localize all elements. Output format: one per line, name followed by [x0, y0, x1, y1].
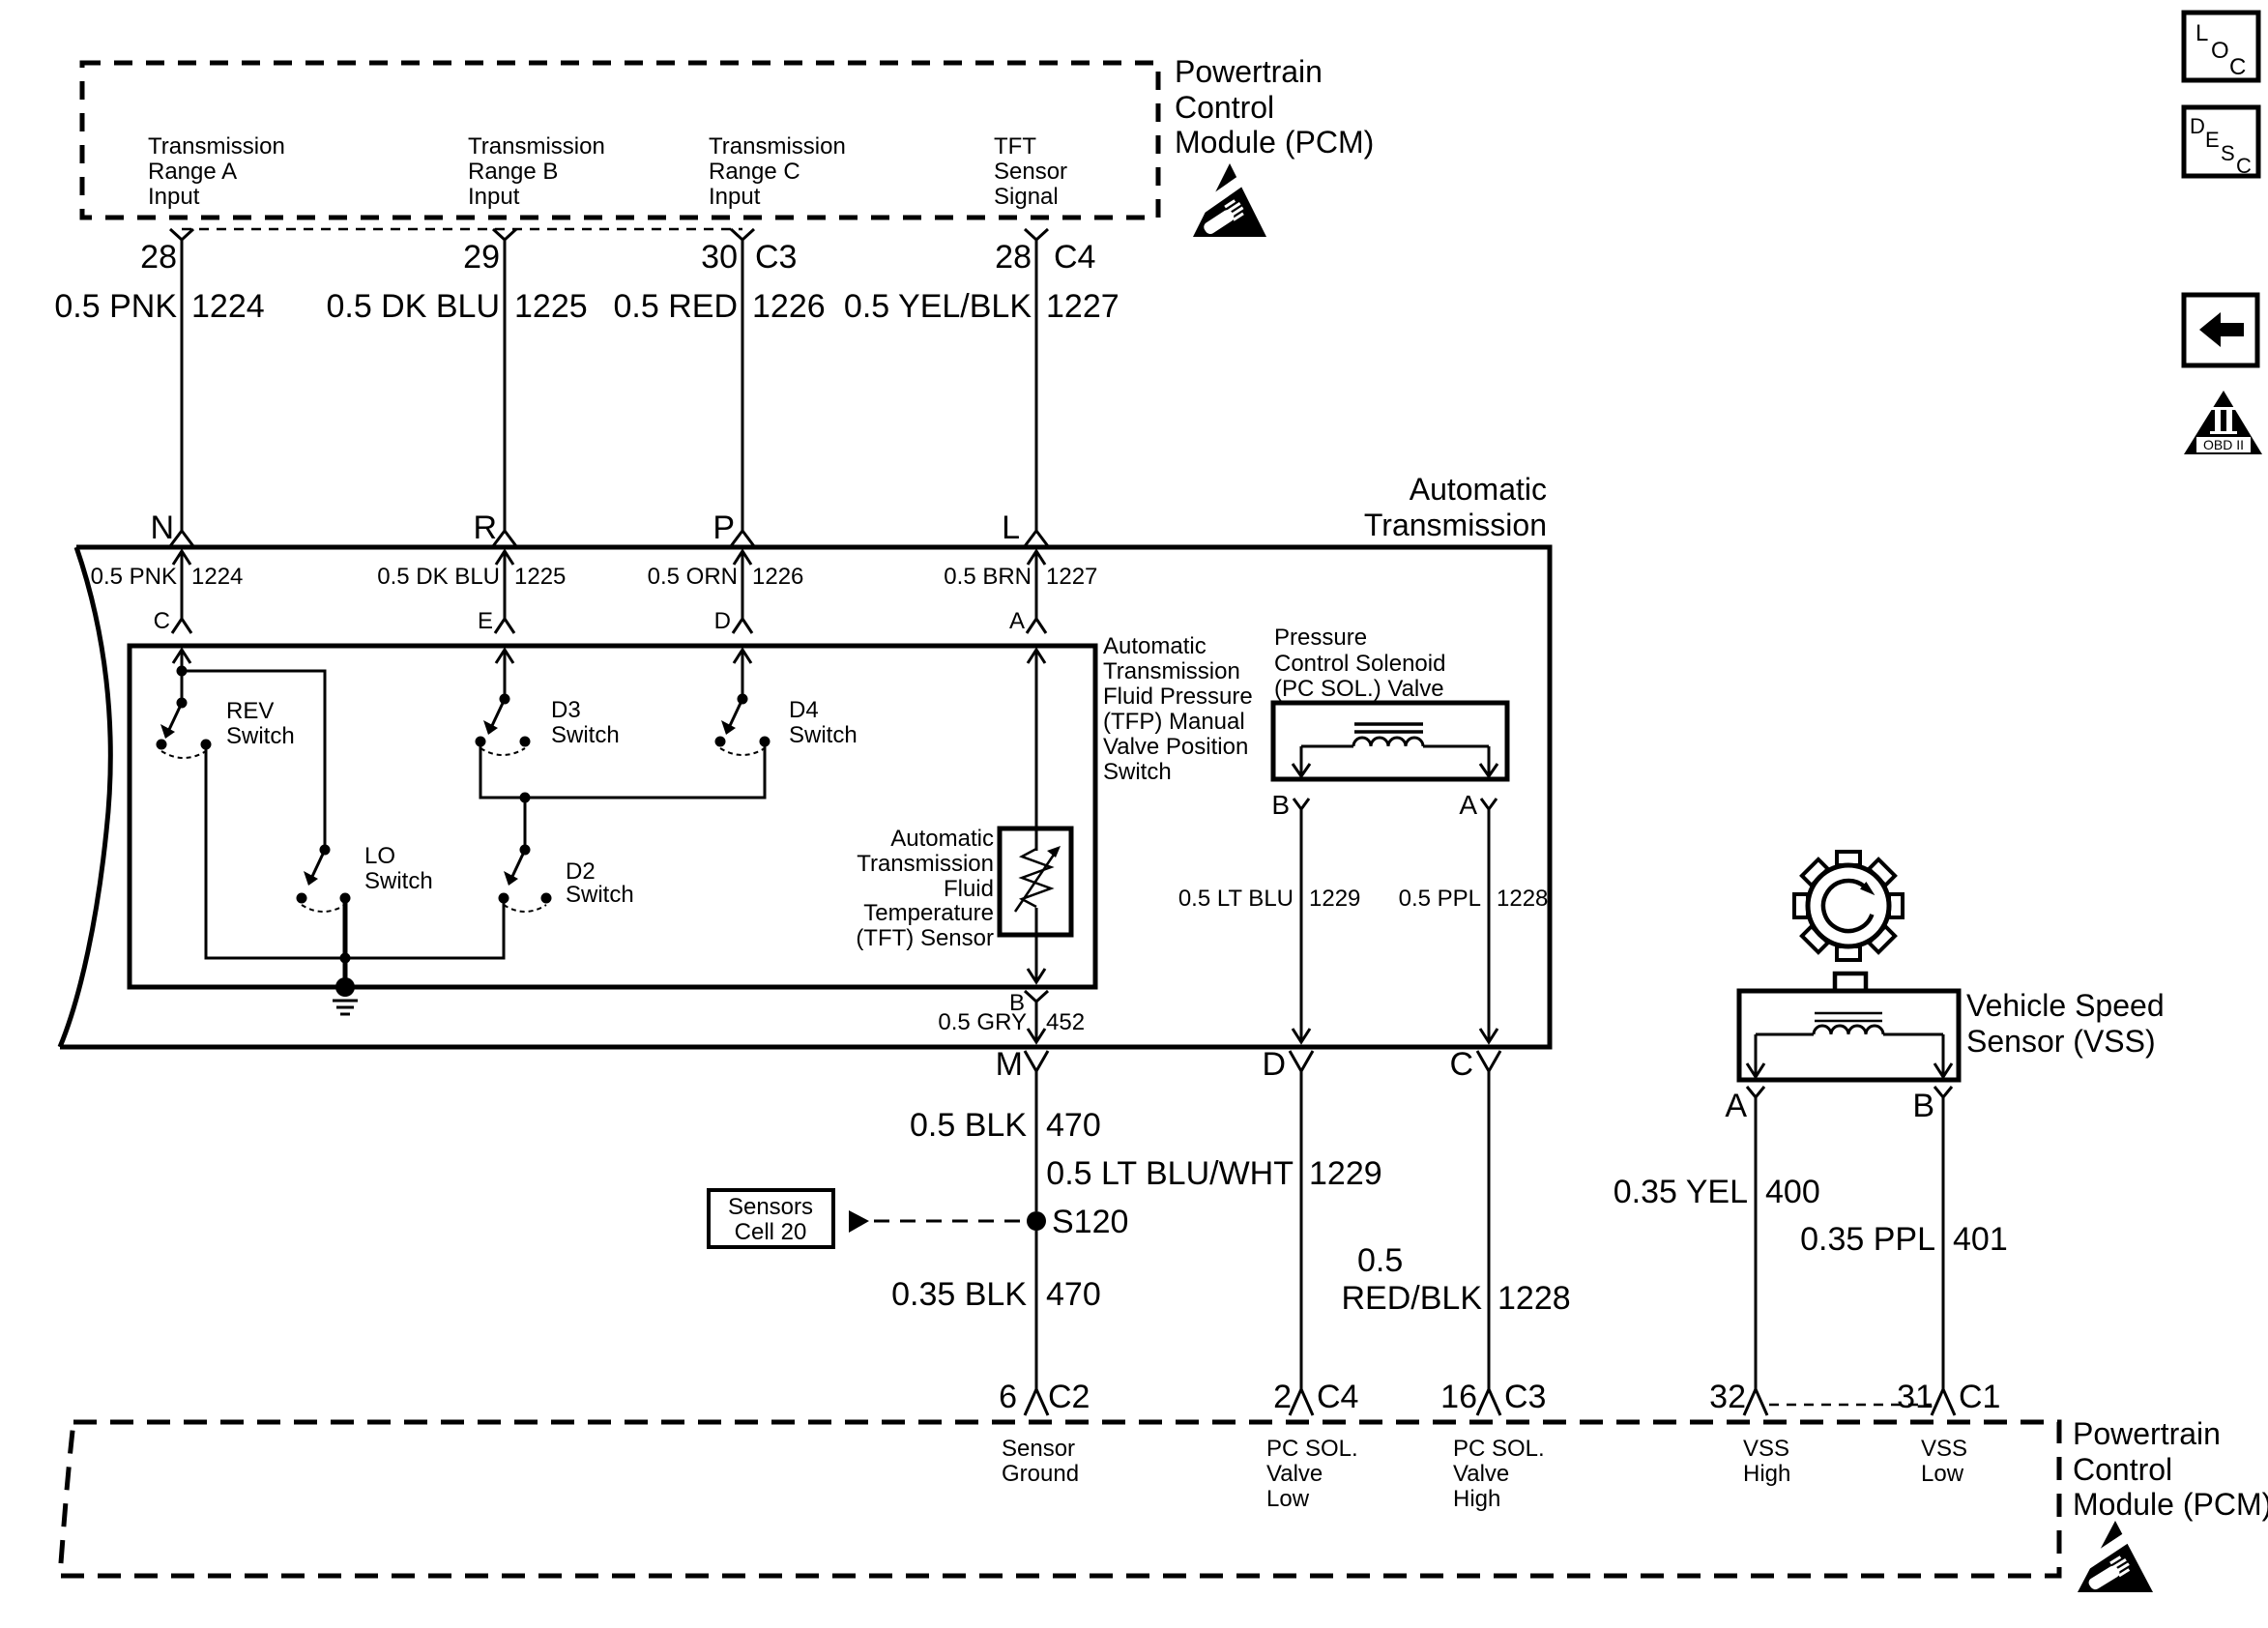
pin C transmission case: [1449, 1046, 1500, 1083]
svg-text:C3: C3: [755, 239, 797, 276]
wire A to TFT sensor: [1035, 650, 1038, 851]
PC SOL valve box: [1273, 703, 1507, 779]
label PC SOL Valve Low: [1266, 1436, 1358, 1512]
wire TFT to pin B: [1028, 908, 1045, 982]
pin 29 connector fork (PCM C3): [463, 229, 516, 276]
wire 1227 0.5 BRN inside transmission: [944, 551, 1097, 619]
label Transmission Range B Input: [468, 133, 605, 210]
svg-text:Input: Input: [468, 184, 520, 210]
svg-text:28: 28: [140, 239, 177, 276]
pin 6 C2 PCM: [999, 1379, 1090, 1415]
svg-text:R: R: [473, 509, 497, 546]
svg-text:1228: 1228: [1497, 1280, 1571, 1317]
svg-text:32: 32: [1709, 1379, 1746, 1415]
svg-text:0.5 PNK: 0.5 PNK: [91, 564, 177, 590]
svg-text:Sensor (VSS): Sensor (VSS): [1966, 1024, 2156, 1059]
switch D4: [715, 694, 858, 756]
svg-text:REV: REV: [226, 698, 274, 724]
wire E to D3: [504, 650, 507, 699]
svg-text:0.35 BLK: 0.35 BLK: [891, 1276, 1027, 1313]
splice S120: [1027, 1204, 1128, 1240]
svg-text:Automatic: Automatic: [1410, 472, 1547, 507]
svg-text:0.5: 0.5: [1357, 1242, 1403, 1279]
pin 31 PCM C1: [1897, 1379, 2000, 1415]
svg-text:C4: C4: [1317, 1379, 1358, 1415]
wire 1229 0.5 LT BLU/WHT: [1046, 1071, 1381, 1389]
pin C TFP switch: [154, 608, 191, 663]
switch D3: [476, 694, 620, 756]
label Sensor Ground: [1002, 1436, 1079, 1487]
svg-text:Input: Input: [709, 184, 761, 210]
svg-text:Low: Low: [1921, 1461, 1964, 1487]
PC SOL solenoid core bars: [1354, 724, 1423, 732]
wire 1228 0.5 RED/BLK: [1342, 1071, 1571, 1389]
wire D2 to ground bus: [345, 898, 504, 958]
LOC legend box: [2184, 13, 2258, 80]
svg-text:400: 400: [1765, 1174, 1820, 1210]
VSS stem: [1835, 974, 1866, 991]
svg-text:1224: 1224: [191, 564, 243, 590]
svg-text:A: A: [1459, 790, 1477, 820]
svg-text:C: C: [2236, 154, 2252, 178]
svg-text:OBD II: OBD II: [2203, 437, 2244, 452]
svg-text:N: N: [150, 509, 174, 546]
wire 1225 0.5 DK BLU inside transmission: [377, 551, 566, 619]
switch LO: [297, 843, 433, 912]
label Powertrain Control Module (PCM) top: [1175, 54, 1374, 160]
Pressure Control Solenoid valve label: [1274, 625, 1445, 702]
pin M transmission case: [996, 1046, 1048, 1083]
svg-text:A: A: [1009, 608, 1025, 634]
svg-text:470: 470: [1046, 1107, 1101, 1144]
wire LO to ground: [340, 898, 351, 987]
pin 2 C4 PCM: [1273, 1379, 1358, 1415]
svg-text:D2: D2: [566, 858, 596, 885]
svg-text:16: 16: [1440, 1379, 1477, 1415]
svg-text:S: S: [2221, 141, 2235, 165]
svg-text:1227: 1227: [1046, 288, 1119, 325]
svg-text:6: 6: [999, 1379, 1017, 1415]
svg-text:31: 31: [1897, 1379, 1934, 1415]
pin D transmission case: [1262, 1046, 1313, 1083]
svg-text:Switch: Switch: [1103, 759, 1172, 785]
svg-text:Automatic: Automatic: [1103, 633, 1207, 659]
label VSS Low: [1921, 1436, 1967, 1487]
DESC legend box: [2184, 107, 2258, 178]
pin 30 connector fork (PCM C3): [701, 229, 797, 276]
pin A TFP switch: [1009, 608, 1046, 663]
svg-text:Powertrain: Powertrain: [1175, 54, 1323, 89]
svg-text:Vehicle Speed: Vehicle Speed: [1966, 988, 2165, 1023]
svg-text:C: C: [2229, 54, 2246, 80]
svg-text:L: L: [1002, 509, 1020, 546]
svg-text:0.5 YEL/BLK: 0.5 YEL/BLK: [844, 288, 1032, 325]
svg-text:E: E: [478, 608, 493, 634]
svg-text:0.5 BRN: 0.5 BRN: [944, 564, 1032, 590]
label Transmission Range A Input: [148, 133, 285, 210]
svg-text:S120: S120: [1052, 1204, 1128, 1240]
svg-text:PC SOL.: PC SOL.: [1266, 1436, 1358, 1462]
svg-text:Switch: Switch: [551, 722, 620, 748]
svg-text:D: D: [714, 608, 731, 634]
svg-text:C3: C3: [1504, 1379, 1546, 1415]
pin A VSS: [1725, 1087, 1764, 1124]
svg-text:VSS: VSS: [1921, 1436, 1967, 1462]
TFT sensor thermistor box: [1000, 829, 1071, 935]
VSS core bars: [1815, 1013, 1882, 1021]
VSS box: [1739, 991, 1959, 1080]
label Powertrain Control Module (PCM) bottom: [2073, 1416, 2268, 1522]
svg-text:C2: C2: [1048, 1379, 1090, 1415]
svg-text:Module (PCM): Module (PCM): [2073, 1487, 2268, 1522]
svg-text:0.5 ORN: 0.5 ORN: [648, 564, 738, 590]
wire 1224 0.5 PNK inside transmission: [91, 551, 244, 619]
svg-text:M: M: [996, 1046, 1023, 1083]
svg-text:L: L: [2195, 20, 2208, 46]
svg-text:High: High: [1743, 1461, 1790, 1487]
Automatic Transmission box: [60, 547, 1550, 1047]
PCM bottom dashed box: [60, 1422, 2059, 1576]
legend left arrow box: [2184, 295, 2257, 365]
ground G103: [333, 977, 358, 1014]
svg-text:Switch: Switch: [566, 882, 634, 908]
wire D to D4: [741, 650, 744, 699]
svg-text:Range C: Range C: [709, 159, 800, 185]
svg-text:0.5 GRY: 0.5 GRY: [938, 1009, 1027, 1035]
wire 1229 0.5 LT BLU inside transmission: [1178, 809, 1361, 1042]
svg-text:Transmission: Transmission: [1103, 658, 1240, 684]
svg-text:C: C: [154, 608, 170, 634]
wire 1227 0.5 YEL/BLK (PCM to transmission): [844, 240, 1119, 531]
wire 400 0.35 YEL: [1614, 1097, 1820, 1389]
svg-text:High: High: [1453, 1486, 1500, 1512]
svg-text:O: O: [2211, 38, 2229, 64]
svg-text:29: 29: [463, 239, 500, 276]
label PC SOL Valve High: [1453, 1436, 1545, 1512]
svg-text:(PC SOL.) Valve: (PC SOL.) Valve: [1274, 676, 1444, 702]
svg-text:1229: 1229: [1309, 886, 1360, 912]
svg-text:Control: Control: [2073, 1452, 2172, 1487]
svg-text:Switch: Switch: [364, 868, 433, 894]
label Automatic Transmission Fluid Pressure (TFP) Manual Valve Position Switch: [1103, 633, 1253, 785]
svg-text:Switch: Switch: [789, 722, 858, 748]
svg-text:Fluid: Fluid: [944, 876, 994, 902]
svg-text:0.5 DK BLU: 0.5 DK BLU: [377, 564, 500, 590]
svg-text:1225: 1225: [514, 564, 566, 590]
wire D3/D4 common bus: [480, 741, 765, 803]
svg-text:Transmission: Transmission: [709, 133, 846, 160]
svg-text:Control Solenoid: Control Solenoid: [1274, 651, 1445, 677]
svg-text:RED/BLK: RED/BLK: [1342, 1280, 1483, 1317]
svg-text:0.35 PPL: 0.35 PPL: [1800, 1221, 1935, 1258]
pin L transmission case: [1002, 509, 1048, 565]
wire 1228 0.5 PPL inside transmission: [1399, 809, 1549, 1042]
svg-text:Automatic: Automatic: [890, 826, 994, 852]
svg-text:0.35 YEL: 0.35 YEL: [1614, 1174, 1748, 1210]
svg-text:P: P: [712, 509, 735, 546]
wire 1226 0.5 ORN inside transmission: [648, 551, 804, 619]
label Automatic Transmission: [1364, 472, 1547, 542]
svg-text:A: A: [1725, 1088, 1747, 1124]
svg-text:Fluid Pressure: Fluid Pressure: [1103, 683, 1253, 710]
pin B TFP switch: [1009, 990, 1048, 1016]
PCM top dashed box: [82, 63, 1158, 218]
svg-text:B: B: [1271, 790, 1290, 820]
svg-text:D: D: [2190, 114, 2205, 138]
svg-text:C1: C1: [1959, 1379, 2000, 1415]
pin 28 connector fork (PCM C4): [995, 229, 1095, 276]
svg-text:(TFT) Sensor: (TFT) Sensor: [856, 925, 994, 951]
connector C3 dashed line: [182, 228, 742, 231]
svg-text:Signal: Signal: [994, 184, 1059, 210]
svg-text:401: 401: [1953, 1221, 2008, 1258]
svg-text:Ground: Ground: [1002, 1461, 1079, 1487]
pin R transmission case: [473, 509, 516, 565]
svg-text:Transmission: Transmission: [857, 851, 994, 877]
svg-text:Transmission: Transmission: [468, 133, 605, 160]
switch REV: [157, 698, 295, 759]
svg-text:C: C: [1449, 1046, 1473, 1083]
switch D2: [499, 845, 634, 913]
svg-text:Input: Input: [148, 184, 200, 210]
svg-text:1228: 1228: [1497, 886, 1548, 912]
svg-text:0.5 LT BLU/WHT: 0.5 LT BLU/WHT: [1046, 1155, 1294, 1192]
wire 1226 0.5 RED (PCM to transmission): [614, 240, 826, 531]
svg-text:Sensor: Sensor: [1002, 1436, 1075, 1462]
VSS gear icon: [1794, 852, 1903, 960]
svg-text:Valve: Valve: [1453, 1461, 1509, 1487]
svg-text:0.5 RED: 0.5 RED: [614, 288, 739, 325]
svg-text:1225: 1225: [514, 288, 588, 325]
svg-text:VSS: VSS: [1743, 1436, 1789, 1462]
label Vehicle Speed Sensor (VSS): [1966, 988, 2165, 1059]
wire 401 0.35 PPL: [1800, 1097, 2008, 1389]
OBD II symbol: [2184, 391, 2262, 454]
wire REV to ground bus: [206, 744, 345, 958]
svg-text:28: 28: [995, 239, 1032, 276]
svg-text:0.5 PPL: 0.5 PPL: [1399, 886, 1481, 912]
svg-text:0.5 LT BLU: 0.5 LT BLU: [1178, 886, 1294, 912]
pin A PC SOL: [1459, 790, 1497, 820]
ESD symbol bottom: [2075, 1521, 2153, 1592]
svg-text:1229: 1229: [1309, 1155, 1382, 1192]
svg-text:Transmission: Transmission: [1364, 508, 1547, 542]
wire bus to D2: [524, 798, 527, 850]
svg-text:30: 30: [701, 239, 738, 276]
svg-text:D4: D4: [789, 697, 819, 723]
svg-text:(TFP) Manual: (TFP) Manual: [1103, 709, 1245, 735]
wire 452 0.5 GRY: [938, 1002, 1085, 1042]
svg-text:Control: Control: [1175, 90, 1274, 125]
pin 32 PCM C1: [1709, 1379, 1767, 1415]
svg-text:Transmission: Transmission: [148, 133, 285, 160]
svg-text:Powertrain: Powertrain: [2073, 1416, 2221, 1451]
pin B PC SOL: [1271, 790, 1309, 820]
pin E TFP switch: [478, 608, 514, 663]
svg-text:C4: C4: [1054, 239, 1095, 276]
svg-text:PC SOL.: PC SOL.: [1453, 1436, 1545, 1462]
connector C1 dashed line: [1769, 1404, 1932, 1407]
wire C branch: [177, 650, 326, 850]
svg-text:Range B: Range B: [468, 159, 558, 185]
svg-text:Low: Low: [1266, 1486, 1310, 1512]
svg-text:0.5 BLK: 0.5 BLK: [910, 1107, 1027, 1144]
pin P transmission case: [712, 509, 754, 565]
svg-text:LO: LO: [364, 843, 395, 869]
pin N transmission case: [150, 509, 193, 565]
label Transmission Range C Input: [709, 133, 846, 210]
svg-text:Module (PCM): Module (PCM): [1175, 125, 1374, 160]
pin D TFP switch: [714, 608, 752, 663]
wire 1225 0.5 DK BLU (PCM to transmission): [326, 240, 587, 531]
svg-text:E: E: [2205, 128, 2220, 152]
wire 470 0.35 BLK: [891, 1231, 1101, 1389]
svg-text:Valve Position: Valve Position: [1103, 734, 1248, 760]
svg-text:Switch: Switch: [226, 723, 295, 749]
label Automatic Transmission Fluid Temperature (TFT) Sensor: [856, 826, 994, 951]
svg-text:1224: 1224: [191, 288, 265, 325]
Sensors Cell 20 reference box: [709, 1190, 1025, 1247]
wire 1224 0.5 PNK (PCM to transmission): [54, 240, 264, 531]
svg-text:452: 452: [1046, 1009, 1085, 1035]
pin 28 connector fork (PCM C3): [140, 229, 193, 276]
svg-text:1226: 1226: [752, 564, 803, 590]
label TFT Sensor Signal: [994, 133, 1067, 210]
svg-text:TFT: TFT: [994, 133, 1036, 160]
svg-text:1226: 1226: [752, 288, 826, 325]
svg-text:470: 470: [1046, 1276, 1101, 1313]
svg-text:2: 2: [1273, 1379, 1292, 1415]
svg-text:Range A: Range A: [148, 159, 237, 185]
svg-text:0.5 PNK: 0.5 PNK: [54, 288, 177, 325]
svg-text:0.5 DK BLU: 0.5 DK BLU: [326, 288, 500, 325]
svg-text:1227: 1227: [1046, 564, 1097, 590]
TFP manual valve position switch box: [130, 646, 1095, 987]
svg-text:Sensor: Sensor: [994, 159, 1067, 185]
svg-text:Cell 20: Cell 20: [735, 1219, 807, 1245]
pin 16 C3 PCM: [1440, 1379, 1546, 1415]
VSS pickup coil: [1747, 1026, 1952, 1077]
svg-text:Pressure: Pressure: [1274, 625, 1367, 651]
svg-text:B: B: [1912, 1088, 1934, 1124]
svg-text:D3: D3: [551, 697, 581, 723]
svg-text:Sensors: Sensors: [728, 1194, 813, 1220]
PC SOL solenoid coil L1: [1293, 738, 1497, 776]
svg-text:Valve: Valve: [1266, 1461, 1323, 1487]
label VSS High: [1743, 1436, 1790, 1487]
svg-text:Temperature: Temperature: [863, 900, 994, 926]
ESD symbol top: [1190, 163, 1266, 237]
wire 470 0.5 BLK: [910, 1071, 1101, 1211]
svg-text:D: D: [1262, 1046, 1286, 1083]
pin B VSS: [1912, 1087, 1952, 1124]
